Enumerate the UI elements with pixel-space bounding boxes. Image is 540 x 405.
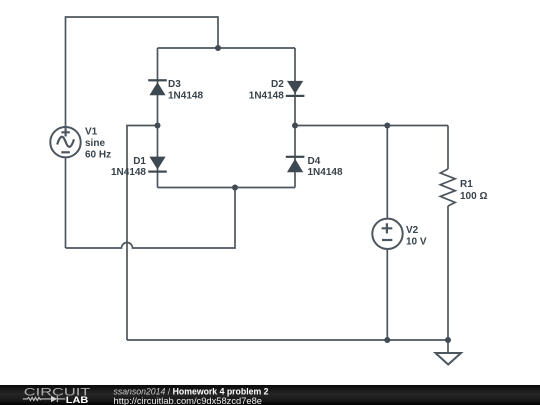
svg-text:D4: D4 — [308, 156, 321, 167]
svg-text:http://circuitlab.com/c9dx58zc: http://circuitlab.com/c9dx58zcd7e8e — [114, 395, 263, 405]
svg-text:V2: V2 — [406, 225, 419, 236]
svg-text:LAB: LAB — [66, 395, 89, 405]
svg-text:1N4148: 1N4148 — [308, 167, 343, 178]
svg-text:D1: D1 — [133, 156, 146, 167]
svg-text:1N4148: 1N4148 — [111, 167, 146, 178]
svg-text:10 V: 10 V — [406, 237, 427, 248]
svg-text:D2: D2 — [271, 79, 284, 90]
svg-text:V1: V1 — [85, 127, 98, 138]
svg-text:1N4148: 1N4148 — [168, 90, 203, 101]
svg-text:100 Ω: 100 Ω — [460, 191, 487, 202]
svg-text:1N4148: 1N4148 — [249, 90, 284, 101]
svg-text:D3: D3 — [168, 79, 181, 90]
svg-text:R1: R1 — [460, 179, 473, 190]
svg-text:sine: sine — [85, 138, 105, 149]
svg-text:60 Hz: 60 Hz — [85, 150, 111, 161]
